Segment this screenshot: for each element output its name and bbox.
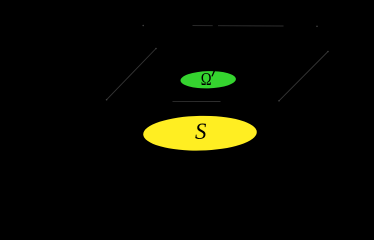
wire: top horizontal visible run (left part) xyxy=(193,25,213,27)
ellipse: green region xyxy=(180,70,236,89)
wire: right diagonal edge xyxy=(279,52,328,101)
node: right diagonal bottom endpoint xyxy=(278,100,280,102)
node: left diagonal bottom endpoint xyxy=(106,99,108,101)
wire: bottom horizontal visible run xyxy=(173,100,221,102)
ellipse: yellow region S xyxy=(143,115,257,152)
node: right diagonal top endpoint xyxy=(327,51,329,53)
node: left diagonal top endpoint xyxy=(155,48,157,50)
svg-text:Ω: Ω xyxy=(201,69,212,89)
node: top line left endpoint xyxy=(142,25,144,27)
node: top line right endpoint xyxy=(316,26,318,28)
svg-text:S: S xyxy=(195,119,207,144)
wire: left diagonal edge xyxy=(107,49,156,100)
wire: top horizontal visible run (right part) xyxy=(218,25,284,27)
